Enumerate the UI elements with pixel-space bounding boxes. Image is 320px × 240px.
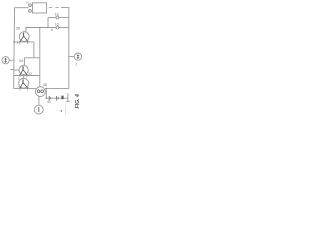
svg-text:36: 36 <box>16 26 21 31</box>
source S2 filament <box>77 54 79 59</box>
transistor T3 legs <box>20 83 28 88</box>
terminal lower-left of box <box>29 10 32 13</box>
svg-text:3: 3 <box>18 77 20 81</box>
svg-text:14: 14 <box>26 0 30 4</box>
left rail wire <box>14 8 15 89</box>
jog wire y57.8 <box>24 57 39 59</box>
svg-text:18: 18 <box>55 12 59 16</box>
svg-text:8: 8 <box>51 28 53 32</box>
source circle S1 (left) <box>2 57 9 64</box>
junction dot V2/row2 <box>39 27 40 28</box>
D1 bottom lead <box>38 96 40 105</box>
svg-text:2: 2 <box>75 62 77 66</box>
transistor T2 circle <box>19 65 28 74</box>
source S2 stub to rail <box>69 56 75 58</box>
bottom wire left of D1 <box>14 87 36 89</box>
transistor T1 top lead <box>25 28 27 32</box>
wire row2 to right rail <box>59 27 69 29</box>
T1 corner blob <box>25 27 27 29</box>
riser joining row1 and row2 <box>47 18 49 28</box>
transistor T1 circle <box>19 32 29 42</box>
wire row y27.5 from transistor T1 top <box>26 27 56 29</box>
terminal circle row2 <box>56 26 59 29</box>
wire row1 to right rail <box>59 17 69 19</box>
node vertical V2 <box>39 28 41 89</box>
transistor T2 top lead <box>23 58 25 66</box>
box 10 (top device box) <box>33 3 47 13</box>
polarity mark <box>61 110 63 112</box>
transistor T2 legs <box>20 70 27 76</box>
battery end tick <box>66 100 70 102</box>
T3 leg ticks <box>20 89 28 90</box>
battery cell 2 <box>56 96 58 101</box>
battery end vertical <box>67 93 69 101</box>
transistor T1 base bar <box>23 33 25 38</box>
source S1 filament <box>4 58 6 63</box>
stub rail to T2 <box>14 69 19 71</box>
wire from box terminals to left rail <box>14 7 28 9</box>
svg-text:34: 34 <box>19 58 24 63</box>
D1 inner dots <box>37 90 40 93</box>
vertical from T1 emitter corner <box>33 42 35 58</box>
wire y75.5 between T2 and T3 <box>14 75 40 77</box>
terminal upper-left of box <box>29 4 32 7</box>
transistor T3 base bar <box>22 79 24 84</box>
svg-text:32: 32 <box>28 72 32 76</box>
source circle S2 (right) <box>74 53 81 60</box>
transistor T3 circle <box>19 78 29 88</box>
terminal circle row1 <box>56 16 59 19</box>
switch blob <box>61 96 63 100</box>
right rail top segment <box>61 8 69 89</box>
svg-text:16: 16 <box>55 22 59 26</box>
riser to battery wire <box>45 88 47 98</box>
svg-text:40: 40 <box>47 100 51 104</box>
wire row y17.5 <box>48 17 56 19</box>
meter D2 circle <box>34 105 43 114</box>
source S1 stub to rail <box>9 59 14 61</box>
battery cell 1 <box>48 96 50 101</box>
svg-text:FIG. 4: FIG. 4 <box>75 94 81 109</box>
transducer D1 circle <box>36 87 46 97</box>
T1 leg tick marks <box>17 42 28 44</box>
T2 leg ticks <box>20 76 27 77</box>
svg-text:38: 38 <box>43 82 48 87</box>
transistor T1 emitter wire <box>14 41 34 43</box>
D2 inner bar <box>38 107 40 112</box>
battery junction dot <box>46 97 48 99</box>
transistor T3 top lead <box>23 76 25 79</box>
dashed leader from box to right rail <box>49 7 62 9</box>
junction dot rail/T1 wire <box>13 41 15 43</box>
bottom wire right of D1 to rail <box>45 87 69 89</box>
transistor T2 base bar <box>22 66 24 71</box>
rail label dash <box>10 69 13 71</box>
battery wire <box>46 97 67 99</box>
transistor T1 legs <box>20 36 28 42</box>
